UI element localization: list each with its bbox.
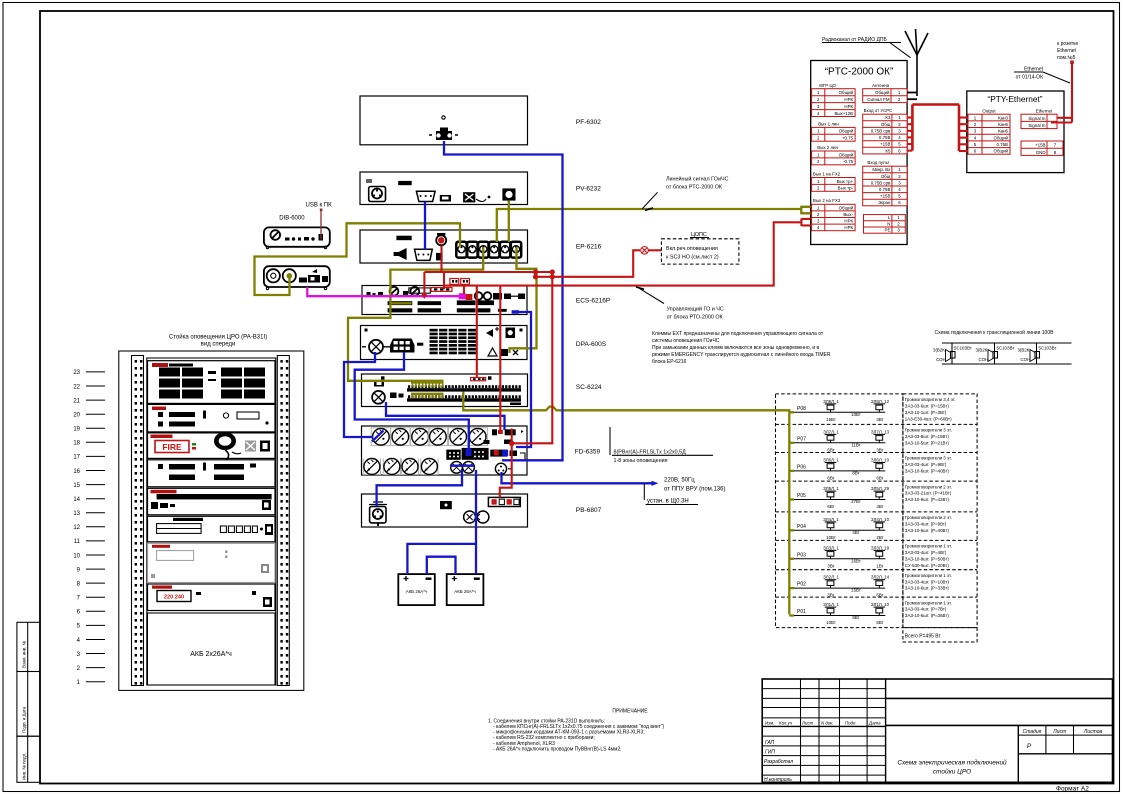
svg-text:НРК: НРК xyxy=(844,225,853,230)
svg-text:ЗЛ5Л. 29: ЗЛ5Л. 29 xyxy=(871,486,890,491)
svg-text:Стадия: Стадия xyxy=(1023,729,1042,735)
svg-text:Громкоговорители 3 эт.: Громкоговорители 3 эт. xyxy=(905,456,952,461)
svg-text:0.75В: 0.75В xyxy=(997,142,1009,147)
svg-text:устан. в Щ0.3Н: устан. в Щ0.3Н xyxy=(647,499,689,505)
svg-text:пом.№5: пом.№5 xyxy=(1057,55,1076,61)
svg-text:ЗЛ3Л. 1: ЗЛ3Л. 1 xyxy=(823,545,839,550)
svg-text:18: 18 xyxy=(73,441,80,447)
svg-text:Ethernet: Ethernet xyxy=(1057,48,1077,54)
device labels column xyxy=(575,119,610,514)
svg-text:ЗАЗ-03-21шт. (Р=41Вт): ЗАЗ-03-21шт. (Р=41Вт) xyxy=(905,491,952,496)
svg-text:N: N xyxy=(887,221,890,226)
svg-text:Вход от УСРС: Вход от УСРС xyxy=(864,108,893,113)
svg-text:Лист: Лист xyxy=(1052,729,1066,735)
svg-text:ECS-6216P: ECS-6216P xyxy=(576,297,610,304)
svg-text:2Вт: 2Вт xyxy=(876,535,883,540)
svg-text:14: 14 xyxy=(73,497,80,503)
svg-text:6Вт: 6Вт xyxy=(827,475,834,480)
svg-text:PV-6232: PV-6232 xyxy=(576,186,601,193)
rack device 2: control panel xyxy=(148,404,276,432)
svg-text:“PTY-Ethernet”: “PTY-Ethernet” xyxy=(987,94,1042,104)
wire blue FD round output down through PB to batteries xyxy=(407,470,476,574)
wire olive EP XLR3 through ECS to SC combs xyxy=(348,247,483,381)
svg-text:8Вт: 8Вт xyxy=(852,470,859,475)
svg-text:Подп.: Подп. xyxy=(845,720,857,725)
svg-text:10: 10 xyxy=(73,553,80,559)
svg-text:23: 23 xyxy=(73,370,80,376)
svg-text:Общий: Общий xyxy=(994,149,1009,154)
svg-text:3(В2К: 3(В2К xyxy=(976,348,988,353)
svg-text:СОН: СОН xyxy=(979,357,989,362)
svg-text:N док.: N док. xyxy=(821,720,834,725)
wire red bus RH1 xyxy=(424,272,552,295)
rack device 5: amplifier with long vent xyxy=(148,488,276,515)
zone P02 xyxy=(789,573,952,598)
svg-text:блока ЕР-6216: блока ЕР-6216 xyxy=(652,359,687,365)
svg-text:P02: P02 xyxy=(797,582,806,588)
svg-text:ЗАЗ-03-8шт. (Р=15Вт): ЗАЗ-03-8шт. (Р=15Вт) xyxy=(905,434,950,439)
svg-text:Signal In: Signal In xyxy=(1028,116,1046,121)
svg-text:Инв. № подл.: Инв. № подл. xyxy=(22,753,27,780)
wire red long vertical to FD and PB xyxy=(500,272,553,498)
svg-text:+15В: +15В xyxy=(880,142,890,147)
svg-text:АКБ 26А*ч: АКБ 26А*ч xyxy=(406,589,427,594)
zone P01 xyxy=(789,600,952,625)
wire blue FD XLR bar xyxy=(450,465,474,467)
svg-text:6Вт: 6Вт xyxy=(827,504,834,509)
svg-text:ЗАЗ-03-4шт. (Р=9Вт): ЗАЗ-03-4шт. (Р=9Вт) xyxy=(905,462,947,467)
svg-text:ЗАЗ-10-9шт. (Р=50Вт): ЗАЗ-10-9шт. (Р=50Вт) xyxy=(905,556,950,561)
svg-text:ЗЛ8Л. 1: ЗЛ8Л. 1 xyxy=(823,399,839,404)
box PF-6302 xyxy=(360,96,528,145)
svg-text:Общий: Общий xyxy=(839,129,854,134)
svg-text:FD-6359: FD-6359 xyxy=(575,449,601,456)
svg-text:Р: Р xyxy=(1027,743,1032,750)
svg-text:ЗАЗ-10-6шт. (Р=40Вт): ЗАЗ-10-6шт. (Р=40Вт) xyxy=(905,469,950,474)
svg-text:“PTC-2000 ОК”: “PTC-2000 ОК” xyxy=(825,67,894,78)
svg-text:ГИП: ГИП xyxy=(765,749,775,755)
svg-text:ГАП: ГАП xyxy=(765,740,775,746)
svg-text:Общий: Общий xyxy=(994,135,1009,140)
svg-text:Разработал: Разработал xyxy=(764,759,793,765)
svg-text:PE: PE xyxy=(885,228,891,233)
battery 2 АКБ xyxy=(447,574,484,605)
box ECS-6216P xyxy=(362,286,527,315)
wire blue PF to FD right side xyxy=(444,141,563,460)
zone P05 xyxy=(789,484,952,509)
wire blue battery series link xyxy=(427,557,456,574)
svg-text:+15В: +15В xyxy=(1035,143,1045,148)
svg-text:3Вт: 3Вт xyxy=(827,563,834,568)
wire red PTC to PTY bus xyxy=(907,105,968,152)
svg-text:НРК: НРК xyxy=(844,104,853,109)
svg-text:Подп. и Дата: Подп. и Дата xyxy=(22,706,27,733)
svg-text:-0.75: -0.75 xyxy=(843,159,854,164)
rack device 8: power distributor 220V xyxy=(148,584,276,611)
box PTY-Ethernet xyxy=(967,91,1064,173)
leader Линейный сигнал ГОиЧС xyxy=(642,176,729,211)
svg-text:СУ-530-6шт. (Р=20Вт): СУ-530-6шт. (Р=20Вт) xyxy=(905,563,950,568)
box EP-6216 xyxy=(360,230,528,263)
svg-text:Громкоговорители 1 эт.: Громкоговорители 1 эт. xyxy=(905,573,952,578)
zone P07 xyxy=(789,428,952,453)
label к розетке Ethernet xyxy=(1057,41,1078,61)
svg-text:ЗАЗ-10-5шт. (Р=21Вт): ЗАЗ-10-5шт. (Р=21Вт) xyxy=(905,440,950,445)
svg-text:19: 19 xyxy=(73,427,80,433)
rack device 3: FIRE mic panel xyxy=(148,432,276,472)
wire blue 220V feed with arrow xyxy=(502,472,726,505)
svg-text:P07: P07 xyxy=(797,436,806,442)
wire olive SC comb jumpers xyxy=(411,383,444,399)
svg-text:PF-6302: PF-6302 xyxy=(576,119,601,126)
label cable 8x to zones xyxy=(610,427,713,464)
svg-text:ЗЛ2Л. 1: ЗЛ2Л. 1 xyxy=(823,575,839,580)
svg-text:МГР ЦО: МГР ЦО xyxy=(819,83,836,88)
box PB-6807 xyxy=(362,494,528,527)
wire olive PV power inlet to EP XLR5 xyxy=(508,201,510,242)
wire olive loop console to EP XLR1 xyxy=(255,223,461,295)
PTC table L N PE xyxy=(864,215,906,234)
EP XLR output connectors 1-6 xyxy=(456,242,521,258)
rack device 7: gray panel xyxy=(148,543,276,582)
svg-text:220 240: 220 240 xyxy=(164,595,184,601)
remote mic console unit xyxy=(264,266,330,289)
svg-text:СОН: СОН xyxy=(1021,357,1031,362)
svg-text:20: 20 xyxy=(73,413,80,419)
svg-text:1Вт: 1Вт xyxy=(876,563,883,568)
svg-text:Микр. Вх: Микр. Вх xyxy=(872,167,891,172)
wire blue FD to PB XLR xyxy=(377,470,462,507)
contact symbol ЦОПС xyxy=(641,247,662,255)
wire red bus RH2 to PTC FX3 pins 3-4 xyxy=(444,218,811,285)
svg-text:Антенна: Антенна xyxy=(872,83,890,88)
svg-text:15Вт: 15Вт xyxy=(826,417,836,422)
svg-text:8Вт: 8Вт xyxy=(852,615,859,620)
svg-text:P05: P05 xyxy=(797,493,806,499)
wire blue PV DB9 to EP DB9 xyxy=(424,202,426,251)
svg-text:5С10ЗВт: 5С10ЗВт xyxy=(997,346,1015,351)
svg-text:Громкоговорители 2 эт.: Громкоговорители 2 эт. xyxy=(905,484,952,489)
svg-text:ЗАЗ-03-4шт. (Р=10Вт): ЗАЗ-03-4шт. (Р=10Вт) xyxy=(905,579,950,584)
rack unit numbers 1-23 xyxy=(73,370,105,686)
svg-text:1-8 зоны оповещения: 1-8 зоны оповещения xyxy=(614,458,668,464)
wire red jumper + junctions xyxy=(534,272,536,277)
svg-text:Схема подключения к трансляцио: Схема подключения к трансляционной линии… xyxy=(935,329,1055,336)
svg-text:Signal In: Signal In xyxy=(1028,123,1046,128)
svg-text:К3: К3 xyxy=(885,115,891,120)
svg-text:от блока РТО-2000 ОК: от блока РТО-2000 ОК xyxy=(667,315,724,321)
svg-text:Вых+12В: Вых+12В xyxy=(834,111,853,116)
svg-text:ЗЛ6Л. 1: ЗЛ6Л. 1 xyxy=(823,457,839,462)
label Радиоканал от РАДИО ДПБ xyxy=(822,37,911,58)
wire red ЦОПС branch xyxy=(536,250,641,276)
wire red RH2 drop to FD red square xyxy=(499,286,501,430)
svg-text:Громкоговорители 3 эт.: Громкоговорители 3 эт. xyxy=(905,428,952,433)
battery 1 АКБ xyxy=(398,574,435,605)
svg-text:DIB-6000: DIB-6000 xyxy=(279,216,305,222)
svg-text:ЗЛ7Л. 1: ЗЛ7Л. 1 xyxy=(823,429,839,434)
svg-text:10Вт: 10Вт xyxy=(826,620,836,625)
svg-text:Вкл.реч.оповещения: Вкл.реч.оповещения xyxy=(666,246,718,252)
svg-text:15Вт: 15Вт xyxy=(851,588,861,593)
svg-text:Кан6: Кан6 xyxy=(998,129,1008,134)
notes ПРИМЕЧАНИЕ xyxy=(488,709,664,753)
svg-text:ЗАЗ-03-6шт. (Р=15Вт): ЗАЗ-03-6шт. (Р=15Вт) xyxy=(905,404,950,409)
svg-text:Вых 2 на FX3: Вых 2 на FX3 xyxy=(813,198,841,203)
svg-text:10Вт: 10Вт xyxy=(851,412,861,417)
svg-text:Клеммы ЕХТ предназначены для п: Клеммы ЕХТ предназначены для подключения… xyxy=(652,331,824,337)
svg-text:PB-6807: PB-6807 xyxy=(576,507,602,514)
svg-text:Вых-: Вых- xyxy=(843,212,853,217)
svg-text:ЗЛ4Л. 10: ЗЛ4Л. 10 xyxy=(871,517,890,522)
svg-text:Общ: Общ xyxy=(881,174,891,179)
svg-text:+0.75: +0.75 xyxy=(842,136,854,141)
svg-text:Вых 2 лин: Вых 2 лин xyxy=(817,145,838,150)
svg-text:6Вт: 6Вт xyxy=(827,447,834,452)
svg-text:Лист: Лист xyxy=(801,720,814,725)
svg-text:ЗАЗ-10-1шт. (Р=3Вт): ЗАЗ-10-1шт. (Р=3Вт) xyxy=(905,410,947,415)
svg-text:ЗЛ3Л. 19: ЗЛ3Л. 19 xyxy=(871,545,890,550)
svg-text:Сигнал FM: Сигнал FM xyxy=(867,97,890,102)
svg-text:к SC3 НО (см.лист 2): к SC3 НО (см.лист 2) xyxy=(666,255,719,261)
svg-text:Кан5: Кан5 xyxy=(998,122,1008,127)
svg-text:12: 12 xyxy=(73,525,80,531)
svg-text:ЗЛ4Л. 1: ЗЛ4Л. 1 xyxy=(823,517,839,522)
svg-text:3Вт: 3Вт xyxy=(876,417,883,422)
svg-text:режиме EMERGENCY транслируется: режиме EMERGENCY транслируется аудиосигн… xyxy=(652,351,831,358)
svg-text:8(РВнг(А)-FRLSLTх 1х2х0,5Д: 8(РВнг(А)-FRLSLTх 1х2х0,5Д xyxy=(614,450,687,456)
svg-text:3(В2К: 3(В2К xyxy=(1018,348,1030,353)
svg-text:к розетке: к розетке xyxy=(1057,41,1078,47)
wire blue ECS to FD right connector xyxy=(516,312,531,447)
svg-text:Вход пульт: Вход пульт xyxy=(867,160,889,165)
wire red ethernet riser xyxy=(1051,64,1072,123)
svg-text:3Вт: 3Вт xyxy=(852,530,859,535)
wire olive zone feed SC to distribution bus xyxy=(463,392,789,615)
svg-text:системы оповещения ГОиЧС: системы оповещения ГОиЧС xyxy=(652,338,720,344)
rack device 6: tuner/player xyxy=(148,516,276,542)
svg-text:СОН: СОН xyxy=(936,357,946,362)
speaker zone distribution dashed boxes xyxy=(776,394,978,642)
svg-text:ЗАЗ-03-4шт. (Р=4Вт): ЗАЗ-03-4шт. (Р=4Вт) xyxy=(905,550,947,555)
svg-text:Кан3: Кан3 xyxy=(998,115,1008,120)
wire dark-red USB to DIB xyxy=(320,211,322,240)
svg-text:НРК: НРК xyxy=(844,219,853,224)
svg-text:EP-6216: EP-6216 xyxy=(576,244,602,251)
PTY power table xyxy=(1021,141,1063,155)
svg-text:DPA-600S: DPA-600S xyxy=(576,341,607,348)
svg-text:Н.контроль: Н.контроль xyxy=(764,777,792,783)
svg-text:0.75В срв: 0.75В срв xyxy=(871,180,891,185)
svg-text:Всего Р=495 Вт: Всего Р=495 Вт xyxy=(905,634,942,640)
box SC-6224 xyxy=(362,374,528,407)
left stamp column cells xyxy=(17,622,40,782)
svg-text:10Вт: 10Вт xyxy=(826,535,836,540)
svg-text:ЗЛ6Л. 10: ЗЛ6Л. 10 xyxy=(871,457,890,462)
svg-text:ЗЛ5Л. 1: ЗЛ5Л. 1 xyxy=(823,486,839,491)
PTY Output table xyxy=(968,114,1010,154)
rack PA-B31I front view title xyxy=(169,334,267,348)
dashed box ЦОПС xyxy=(661,232,739,264)
svg-text:5С10ЗВт: 5С10ЗВт xyxy=(1039,346,1057,351)
svg-text:3Вт: 3Вт xyxy=(827,593,834,598)
leader Управляющий ГО и ЧС xyxy=(636,287,724,321)
svg-text:+15В: +15В xyxy=(880,194,890,199)
svg-text:Взам. инв. №: Взам. инв. № xyxy=(22,641,27,668)
box PTC-2000 OK xyxy=(811,61,907,245)
wire olive EP XLR4 to PTC FX3 pins 1-2 xyxy=(497,206,811,242)
svg-text:Громкоговорители 2 эт.: Громкоговорители 2 эт. xyxy=(905,515,952,520)
DIB-6000 desktop unit xyxy=(264,203,332,249)
wire red drop to SC red strip xyxy=(476,286,478,378)
svg-text:6Вт: 6Вт xyxy=(876,620,883,625)
svg-text:GND: GND xyxy=(1036,150,1046,155)
svg-text:13: 13 xyxy=(73,511,80,517)
svg-text:21: 21 xyxy=(73,398,80,404)
svg-text:Вых 1 лин: Вых 1 лин xyxy=(818,122,839,127)
rack device 1: power amplifier with heatsinks xyxy=(148,361,276,404)
title block xyxy=(762,679,1112,793)
svg-text:- АКБ 26А*ч подключить проводо: - АКБ 26А*ч подключить проводом ПуВВнг(В… xyxy=(493,746,622,752)
wire red EP button drop xyxy=(440,246,442,273)
svg-text:ЗАЗ-10-6шт. (Р=36Вт): ЗАЗ-10-6шт. (Р=36Вт) xyxy=(905,613,950,618)
svg-text:17: 17 xyxy=(73,455,80,461)
svg-text:P06: P06 xyxy=(797,464,806,470)
svg-text:FIRE: FIRE xyxy=(162,442,182,452)
rack device 4: control panel 2 xyxy=(148,460,276,487)
svg-text:ЗЛ1Л. 1: ЗЛ1Л. 1 xyxy=(823,602,839,607)
svg-text:Экран: Экран xyxy=(878,200,891,205)
svg-text:Стойка оповещения ЦРО (РА-В31I: Стойка оповещения ЦРО (РА-В31I) xyxy=(169,334,267,341)
svg-text:Схема электрическая подключени: Схема электрическая подключений xyxy=(897,759,1007,767)
svg-text:27Вт: 27Вт xyxy=(851,499,861,504)
svg-text:11Вт: 11Вт xyxy=(851,442,860,447)
PTY Signal In table xyxy=(1021,114,1057,128)
antenna symbol xyxy=(905,29,928,99)
svg-text:3Вт: 3Вт xyxy=(876,504,883,509)
svg-text:USB к ПК: USB к ПК xyxy=(306,203,333,209)
svg-text:Линейный сигнал ГОиЧС: Линейный сигнал ГОиЧС xyxy=(666,176,729,183)
rack cabinet outline xyxy=(119,351,304,690)
svg-text:ЗАЗ-03-4шт. (Р=9Вт): ЗАЗ-03-4шт. (Р=9Вт) xyxy=(905,522,947,527)
svg-text:от 01/14-ОК: от 01/14-ОК xyxy=(1016,75,1043,81)
zone P08 xyxy=(789,397,955,422)
rack rail holes xyxy=(135,360,289,685)
red connector pair blocks above ECS xyxy=(450,279,470,285)
svg-text:ЗЛ2Л. 14: ЗЛ2Л. 14 xyxy=(871,575,890,580)
svg-text:16Вт: 16Вт xyxy=(851,558,861,563)
svg-text:SC-6224: SC-6224 xyxy=(576,384,602,391)
box DPA-600S xyxy=(361,326,528,360)
svg-text:от блока РТС-2000 ОК: от блока РТС-2000 ОК xyxy=(666,185,723,191)
box FD-6359 xyxy=(362,426,528,475)
svg-text:Общий: Общий xyxy=(839,90,854,95)
wire blue DPA XLR to FD attenuator 1 xyxy=(344,352,375,437)
svg-text:P08: P08 xyxy=(797,406,806,412)
svg-text:220В, 50Гц: 220В, 50Гц xyxy=(664,478,695,484)
svg-text:1АЗ-Е30-4шт. (Р=60Вт): 1АЗ-Е30-4шт. (Р=60Вт) xyxy=(905,416,952,421)
svg-text:6Вт: 6Вт xyxy=(876,593,883,598)
wire blue SC XLR to FD top block xyxy=(386,402,505,430)
svg-text:P01: P01 xyxy=(797,609,806,615)
svg-text:Общий: Общий xyxy=(875,90,890,95)
svg-text:Громкоговорители 1 эт.: Громкоговорители 1 эт. xyxy=(905,544,952,549)
wire blue DPA multipin to FD amphenol xyxy=(355,352,469,450)
svg-text:от ППУ ВРУ (пом.136): от ППУ ВРУ (пом.136) xyxy=(664,487,725,493)
svg-text:ЗЛ8Л. 12: ЗЛ8Л. 12 xyxy=(871,399,890,404)
svg-text:Общий: Общий xyxy=(839,205,854,210)
rack battery compartment АКБ xyxy=(148,613,276,685)
svg-text:Громкоговорители 3,4 эт.: Громкоговорители 3,4 эт. xyxy=(905,397,956,402)
svg-text:АКБ 26А*ч: АКБ 26А*ч xyxy=(454,589,475,594)
svg-text:6Вт: 6Вт xyxy=(876,475,883,480)
svg-text:0.75В: 0.75В xyxy=(879,135,891,140)
svg-text:Листов: Листов xyxy=(1083,729,1103,735)
svg-text:ЗЛ1Л. 10: ЗЛ1Л. 10 xyxy=(871,602,890,607)
mini diagram 100V line xyxy=(933,329,1072,364)
svg-text:Вых 1 на FX2: Вых 1 на FX2 xyxy=(813,172,841,177)
wire magenta console to ECS mic input xyxy=(307,287,460,296)
svg-text:вид спереди: вид спереди xyxy=(201,342,236,348)
svg-text:ЗЛ7Л. 13: ЗЛ7Л. 13 xyxy=(871,429,890,434)
wire olive branch to ECS terminal bar xyxy=(390,302,411,304)
svg-text:3(В2К: 3(В2К xyxy=(933,348,945,353)
svg-text:Изм.: Изм. xyxy=(765,720,774,725)
box PV-6232 xyxy=(360,172,528,205)
olive stubs to zone rows xyxy=(789,412,794,615)
svg-text:0.75В: 0.75В xyxy=(879,187,891,192)
svg-text:ЗАЗ-03-4шт. (Р=7Вт): ЗАЗ-03-4шт. (Р=7Вт) xyxy=(905,607,947,612)
wire olive EP XLR6 to DPA right connector xyxy=(510,247,537,353)
svg-text:Громкоговорители 1 эт.: Громкоговорители 1 эт. xyxy=(905,600,952,605)
svg-text:11: 11 xyxy=(74,539,81,545)
paragraph Клеммы EXT note xyxy=(652,331,831,365)
svg-text:ЗАЗ-10-6шт. (Р=40Вт): ЗАЗ-10-6шт. (Р=40Вт) xyxy=(905,528,950,533)
svg-text:0.75В срв: 0.75В срв xyxy=(871,129,891,134)
svg-text:Дата: Дата xyxy=(868,720,881,725)
svg-text:Output: Output xyxy=(982,109,996,114)
svg-text:5С10ЗВт: 5С10ЗВт xyxy=(954,346,972,351)
svg-text:стойки ЦРО: стойки ЦРО xyxy=(933,768,971,776)
zone P03 xyxy=(789,544,952,569)
svg-text:3Вт: 3Вт xyxy=(876,447,883,452)
svg-text:Вых тр-: Вых тр- xyxy=(838,186,854,191)
wire red link to ECS strip xyxy=(443,272,445,289)
svg-text:НРК: НРК xyxy=(844,97,853,102)
wire red drop into ECS connector at 464 xyxy=(463,286,465,294)
svg-text:Кол.уч: Кол.уч xyxy=(779,720,793,725)
svg-text:При замыкании данных клемм вкл: При замыкании данных клемм включаются вс… xyxy=(652,345,820,351)
svg-text:22: 22 xyxy=(73,384,80,390)
svg-text:15: 15 xyxy=(73,483,80,489)
svg-text:Общий: Общий xyxy=(839,152,854,157)
label Ethernet от 01/14-ОК xyxy=(1014,67,1070,84)
zone P06 xyxy=(789,456,952,481)
svg-text:Общ: Общ xyxy=(881,122,891,127)
svg-text:Управляющий ГО и ЧС: Управляющий ГО и ЧС xyxy=(667,306,724,313)
svg-text:16: 16 xyxy=(73,469,80,475)
svg-text:ЗАЗ-10-6шт. (Р=33Вт): ЗАЗ-10-6шт. (Р=33Вт) xyxy=(905,586,950,591)
svg-text:Вых тр+: Вых тр+ xyxy=(837,179,854,184)
svg-text:Формат А2: Формат А2 xyxy=(1056,786,1089,793)
svg-text:ПРИМЕЧАНИЕ: ПРИМЕЧАНИЕ xyxy=(612,709,648,715)
zone P04 xyxy=(789,515,952,540)
svg-text:АКБ 2х26А*ч: АКБ 2х26А*ч xyxy=(190,651,232,658)
svg-text:ЗАЗ-10-9шт. (Р=42Вт): ЗАЗ-10-9шт. (Р=42Вт) xyxy=(905,497,950,502)
svg-text:К5: К5 xyxy=(885,148,891,153)
svg-text:P03: P03 xyxy=(797,552,806,558)
svg-text:Ethernet: Ethernet xyxy=(1036,109,1053,114)
